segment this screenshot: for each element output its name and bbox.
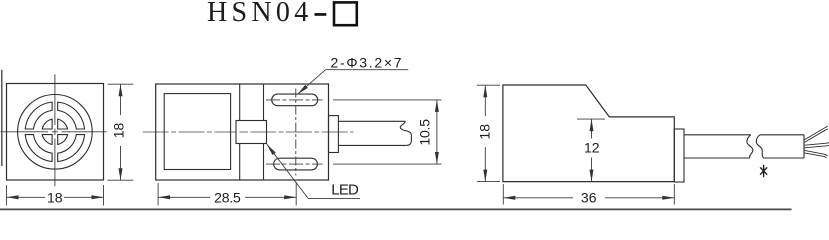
svg-text:18: 18: [477, 124, 493, 140]
extension line for 12 dimension: [577, 118, 605, 120]
svg-text:18: 18: [47, 189, 63, 205]
stripped wires: [805, 126, 829, 158]
ring 2 quarter-disc segments: [42, 119, 67, 144]
svg-text:LED: LED: [331, 182, 359, 199]
svg-text:18: 18: [111, 123, 127, 139]
extension lines for right-view 18 dimension: [477, 85, 500, 181]
dimension line 36 with arrows: [503, 197, 674, 199]
frame border bottom: [0, 208, 792, 210]
centerline vertical: [54, 74, 56, 186]
mounting slot bottom: [274, 158, 318, 170]
centerline horizontal: [1, 131, 107, 133]
svg-text:HSN04: HSN04: [207, 0, 313, 28]
dimension line 28.5 with arrows: [158, 196, 296, 198]
outer circle of sensing face: [18, 95, 93, 170]
svg-text:12: 12: [584, 139, 600, 155]
title checkbox: [334, 2, 357, 25]
extension lines for bottom 18 dimension: [7, 185, 104, 206]
cable lines with break: [684, 135, 804, 158]
extension lines for side 18 dimension: [108, 84, 134, 180]
extension lines for 10.5 dimension: [333, 100, 442, 164]
clamp band lines: [239, 84, 241, 180]
sensor body square: [7, 84, 104, 181]
main body rectangle: [156, 84, 329, 180]
main centerline: [143, 131, 354, 133]
centerline dash inside LED window: [239, 131, 265, 133]
cable break end: [400, 121, 411, 145]
extension lines for 36 dimension: [503, 184, 674, 205]
LED window: [236, 121, 267, 144]
dimension line 12 with arrows: [591, 119, 593, 182]
svg-text:10.5: 10.5: [417, 119, 433, 146]
dimension line 18 (right side of left view) with arrows: [120, 84, 122, 180]
dimension line 10.5 with arrows: [436, 100, 438, 164]
cable (middle view): [338, 120, 405, 122]
title dash: [315, 13, 327, 16]
dimension line 18 (right view) with arrows: [484, 85, 486, 181]
ring 1 arc segments: [25, 102, 84, 161]
asterisk: [761, 165, 767, 176]
cable gland (right view): [674, 129, 684, 182]
mounting slot top: [272, 94, 318, 106]
body outline: [503, 85, 674, 182]
inner square (sensing head): [164, 94, 230, 170]
cable gland (middle view): [329, 116, 339, 153]
svg-text:36: 36: [581, 189, 597, 205]
frame border left segment: [1, 70, 3, 166]
svg-text:2-Φ3.2×7: 2-Φ3.2×7: [331, 54, 404, 70]
label 2-PHI3.2x7 with leader: [298, 70, 409, 95]
svg-text:28.5: 28.5: [214, 189, 241, 205]
dimension line 18 (bottom of left view) with arrows: [7, 196, 104, 198]
slot centerlines: [266, 89, 323, 176]
extension lines for 28.5 dimension: [158, 182, 296, 206]
label LED with leader: [267, 144, 360, 198]
